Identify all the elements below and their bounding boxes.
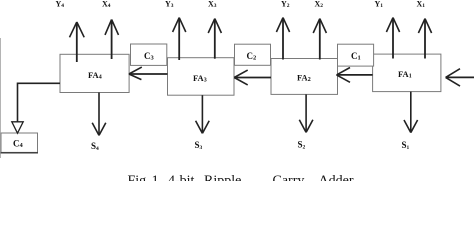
carry wire C2: FA2 to FA3 bbox=[234, 70, 271, 85]
sum output S2 arrow bbox=[299, 94, 313, 132]
input Y2 arrow bbox=[276, 18, 289, 60]
full adder FA3 bbox=[168, 58, 235, 95]
sum output S4 arrow bbox=[92, 93, 106, 136]
input X2 arrow bbox=[313, 19, 326, 60]
svg-text:Fig.1.4-bitRippleCarryAdder: Fig.1.4-bitRippleCarryAdder bbox=[128, 174, 354, 181]
input Y1 arrow bbox=[386, 18, 399, 59]
carry box C2 bbox=[235, 44, 271, 65]
sum output S3 arrow bbox=[196, 95, 210, 133]
carry-out wire FA4 to C4 (hollow arrowhead) bbox=[12, 83, 60, 133]
input Y4 arrow bbox=[70, 22, 85, 62]
input X4 arrow bbox=[105, 20, 119, 60]
full adder FA4 bbox=[60, 54, 129, 92]
carry box C1 bbox=[338, 44, 374, 66]
carry box C3 bbox=[131, 44, 167, 65]
input X1 arrow bbox=[418, 19, 431, 59]
carry-out box C4 bbox=[1, 133, 39, 153]
carry wire C1: FA1 to FA2 bbox=[337, 68, 373, 83]
full adder FA1 bbox=[373, 54, 441, 92]
carry-in wire into FA1 bbox=[446, 69, 474, 86]
carry wire C3: FA3 to FA4 bbox=[129, 67, 168, 80]
sum output S1 arrow bbox=[404, 92, 418, 133]
input X3 arrow bbox=[208, 19, 221, 59]
full adder FA2 bbox=[271, 59, 338, 95]
input Y3 arrow bbox=[173, 18, 186, 60]
